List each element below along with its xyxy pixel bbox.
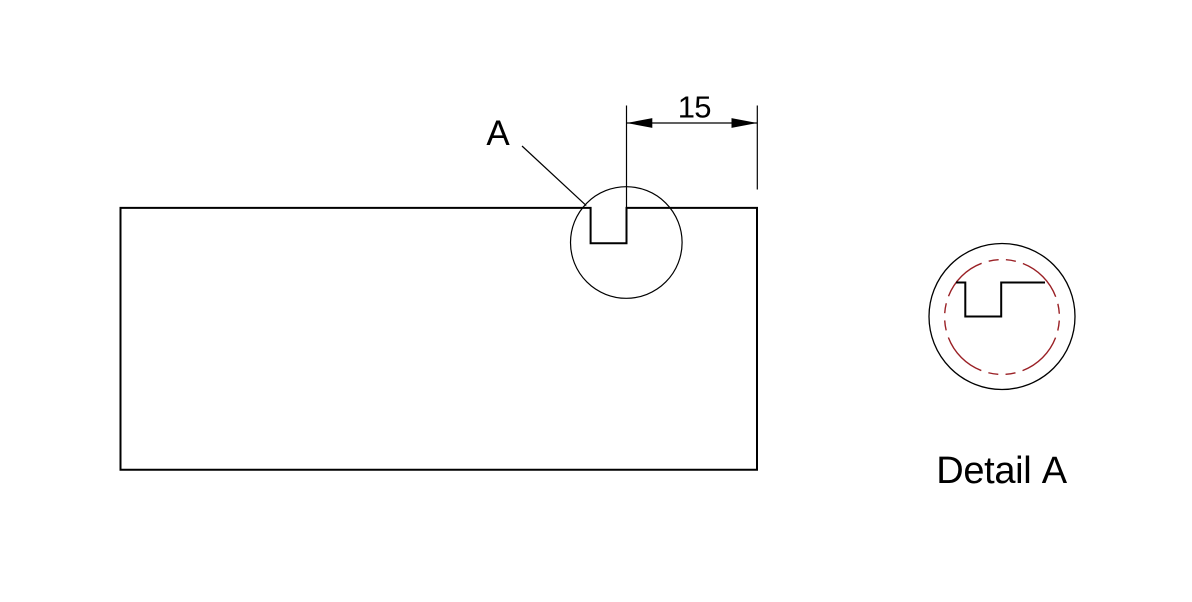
svg-text:DetailA: DetailA xyxy=(936,450,1068,492)
svg-text:15: 15 xyxy=(678,90,711,125)
svg-text:A: A xyxy=(486,114,510,153)
